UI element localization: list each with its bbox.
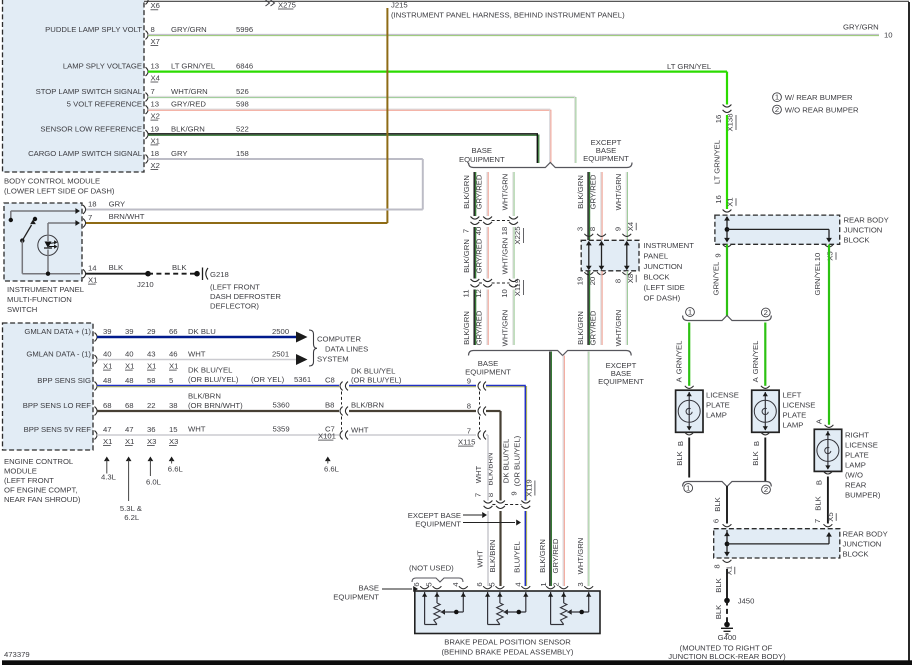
svg-text:GMLAN DATA - (1): GMLAN DATA - (1): [26, 350, 91, 359]
svg-text:6.6L: 6.6L: [324, 465, 340, 474]
svg-text:5 VOLT REFERENCE: 5 VOLT REFERENCE: [67, 100, 142, 109]
svg-text:B: B: [815, 480, 824, 485]
wire BLK/GRN to sensor pin 1: [538, 352, 551, 587]
svg-text:LICENSE: LICENSE: [783, 401, 816, 410]
svg-text:39: 39: [125, 327, 134, 336]
svg-text:X275: X275: [278, 0, 296, 9]
svg-text:A: A: [815, 418, 824, 424]
svg-text:BLK/BRN: BLK/BRN: [351, 401, 384, 410]
svg-text:BLK/GRN: BLK/GRN: [462, 175, 471, 209]
svg-text:LT GRN/YEL: LT GRN/YEL: [667, 62, 712, 71]
svg-text:BPP SENS 5V REF: BPP SENS 5V REF: [24, 425, 92, 434]
svg-text:WHT/GRN: WHT/GRN: [501, 174, 510, 211]
inline connector X225: [461, 217, 523, 245]
svg-text:BLK/GRN: BLK/GRN: [462, 239, 471, 273]
svg-text:5359: 5359: [273, 425, 290, 434]
svg-text:WHT/GRN: WHT/GRN: [576, 538, 585, 575]
svg-text:5.3L &: 5.3L &: [120, 504, 142, 513]
svg-text:BRAKE PEDAL POSITION SENSOR: BRAKE PEDAL POSITION SENSOR: [444, 638, 571, 647]
wire BLK below license plate lamp: [675, 432, 694, 477]
svg-text:BODY CONTROL MODULE: BODY CONTROL MODULE: [4, 177, 100, 186]
svg-text:68: 68: [125, 401, 134, 410]
split brace to license lamps 1 and 2: [683, 307, 772, 320]
svg-text:JUNCTION: JUNCTION: [843, 540, 882, 549]
junction block internal arrows: [584, 234, 631, 275]
wire DK BLU 2500 GMLAN+: [97, 327, 308, 343]
svg-text:3: 3: [575, 227, 584, 231]
wire GRY switch pin18 label: [109, 200, 126, 209]
svg-text:40: 40: [103, 350, 112, 359]
svg-text:BLK/GRN: BLK/GRN: [576, 175, 585, 209]
svg-text:GRY/GRN: GRY/GRN: [171, 25, 207, 34]
svg-text:GRN/YEL: GRN/YEL: [712, 261, 721, 295]
svg-text:COMPUTER: COMPUTER: [317, 335, 361, 344]
svg-text:REAR BODY: REAR BODY: [843, 530, 888, 539]
svg-text:BLK/GRN: BLK/GRN: [462, 311, 471, 345]
ECM BPP SENS SIG row: [37, 376, 173, 390]
license plate lamp E1: [676, 390, 739, 432]
svg-text:(OR BLU/YEL): (OR BLU/YEL): [351, 376, 402, 385]
svg-text:10: 10: [884, 31, 893, 40]
wire BLU/YEL to sensor pin 4: [513, 511, 527, 587]
svg-text:3: 3: [576, 582, 585, 586]
svg-text:43: 43: [147, 350, 156, 359]
svg-text:9: 9: [467, 377, 471, 386]
BCM top row connector X6: [146, 0, 160, 10]
svg-text:5361: 5361: [294, 375, 311, 384]
right license plate lamp connector A: [815, 418, 834, 427]
svg-text:DEFLECTOR): DEFLECTOR): [210, 302, 259, 311]
svg-text:5: 5: [425, 582, 434, 586]
svg-text:EQUIPMENT: EQUIPMENT: [415, 520, 461, 529]
svg-text:MODULE: MODULE: [4, 467, 37, 476]
BCM pin 19 BLK/GRN 522 sensor low row: [40, 125, 538, 146]
svg-text:INSTRUMENT: INSTRUMENT: [644, 241, 695, 250]
svg-text:EQUIPMENT: EQUIPMENT: [598, 377, 644, 386]
svg-text:29: 29: [147, 327, 156, 336]
svg-text:EQUIPMENT: EQUIPMENT: [465, 368, 511, 377]
svg-text:GRY/GRN: GRY/GRN: [843, 23, 879, 32]
svg-text:X1: X1: [125, 362, 134, 371]
svg-text:LAMP SPLY VOLTAGE: LAMP SPLY VOLTAGE: [63, 62, 142, 71]
svg-text:(NOT USED): (NOT USED): [409, 564, 454, 573]
svg-text:SENSOR LOW REFERENCE: SENSOR LOW REFERENCE: [40, 125, 142, 134]
wire GRY loop to switch pin 18: [85, 159, 423, 210]
svg-text:WHT: WHT: [351, 426, 369, 435]
engine control module box: [3, 323, 94, 504]
svg-text:BLK: BLK: [714, 604, 723, 619]
wire WHT after C7 to X115: [349, 392, 486, 447]
wire BRN/WHT vertical from J215: [386, 8, 388, 223]
BASE wires lower segment: [462, 290, 514, 347]
rear body junction block upper internal circuit: [723, 216, 834, 247]
svg-text:2501: 2501: [272, 350, 289, 359]
svg-text:46: 46: [169, 350, 178, 359]
svg-text:8: 8: [712, 564, 721, 568]
wire GRY/GRN right end label 10: [843, 23, 893, 40]
svg-text:7: 7: [473, 493, 482, 497]
svg-text:X4: X4: [151, 73, 161, 82]
svg-text:7: 7: [467, 427, 471, 436]
rear body junction block upper box: [715, 215, 889, 244]
svg-text:X1: X1: [103, 362, 112, 371]
svg-text:X1: X1: [169, 362, 178, 371]
merge brace to brake pedal sensor wires: [469, 351, 632, 356]
svg-text:BLK/BRN: BLK/BRN: [485, 453, 494, 486]
diagram number 473379: [4, 650, 30, 659]
svg-text:DK BLU/YEL: DK BLU/YEL: [351, 367, 396, 376]
svg-text:REAR BODY: REAR BODY: [844, 216, 889, 225]
wire BLK from switch pin 14 to splice J210: [86, 263, 154, 289]
svg-text:6846: 6846: [236, 62, 253, 71]
svg-text:BLOCK: BLOCK: [844, 236, 871, 245]
wire BLK/BRN down from X115: [485, 411, 500, 501]
rear body junction block lower box: [714, 529, 888, 559]
EXCEPT BASE EQUIPMENT label lower right: [598, 361, 644, 386]
svg-text:JUNCTION: JUNCTION: [644, 262, 683, 271]
svg-text:GRY: GRY: [109, 200, 126, 209]
svg-text:2: 2: [552, 582, 561, 586]
switch bottom rail to pin 14: [22, 272, 80, 276]
svg-text:X3: X3: [147, 437, 156, 446]
svg-text:EQUIPMENT: EQUIPMENT: [333, 593, 379, 602]
svg-text:158: 158: [236, 149, 249, 158]
inline connector X138: [714, 105, 736, 132]
svg-text:LT GRN/YEL: LT GRN/YEL: [712, 139, 721, 184]
svg-text:(LEFT SIDE: (LEFT SIDE: [644, 283, 685, 292]
svg-text:W/O REAR BUMPER: W/O REAR BUMPER: [785, 106, 859, 115]
svg-text:47: 47: [125, 425, 134, 434]
BASE wires middle segment: [462, 227, 514, 279]
svg-text:J450: J450: [738, 597, 755, 606]
wire BLK/BRN 5360 BPP LO REF to B8: [97, 392, 348, 416]
svg-text:18: 18: [151, 149, 160, 158]
svg-text:22: 22: [147, 401, 156, 410]
inline connector X119 left: [461, 279, 523, 298]
splice J215 label: [391, 0, 625, 19]
svg-text:2500: 2500: [272, 327, 289, 336]
svg-text:(OR BLU/YEL): (OR BLU/YEL): [513, 435, 522, 486]
BASE EQUIPMENT label at X115: [465, 359, 511, 377]
wire BRN/WHT from switch pin 7: [86, 212, 387, 223]
svg-text:PLATE: PLATE: [706, 401, 730, 410]
svg-text:47: 47: [103, 425, 112, 434]
svg-text:9: 9: [613, 227, 622, 231]
svg-text:1: 1: [686, 483, 690, 492]
engine variant callouts 5.3L 6.2L: [120, 457, 142, 523]
sensor pin connectors and not-used pins 6 5 4: [412, 582, 468, 589]
inline connector X119 lower: [484, 479, 535, 508]
svg-text:6.0L: 6.0L: [146, 478, 162, 487]
wire BLK from lamp merge to rear junction block: [711, 486, 731, 527]
svg-text:18: 18: [500, 227, 509, 236]
svg-text:6: 6: [711, 519, 720, 523]
wire WHT/GRN to sensor pin 3: [576, 352, 589, 587]
svg-text:X101: X101: [318, 432, 336, 441]
svg-text:C8: C8: [325, 376, 335, 385]
instrument panel junction block box: [581, 240, 694, 302]
svg-text:BLK/GRN: BLK/GRN: [538, 539, 547, 573]
svg-text:2: 2: [764, 485, 768, 494]
svg-text:GRY/RED: GRY/RED: [475, 238, 484, 273]
wire WHT/GRN vertical to split: [575, 97, 576, 163]
wire BLK splice to ground G218: [148, 263, 200, 277]
switch pin 14 connector X1: [83, 264, 97, 285]
svg-text:BLK/GRN: BLK/GRN: [576, 311, 585, 345]
wire BLK/GRN vertical to split: [537, 135, 538, 164]
svg-text:J210: J210: [137, 280, 154, 289]
svg-text:10: 10: [813, 253, 822, 262]
svg-text:NEAR FAN SHROUD): NEAR FAN SHROUD): [4, 495, 81, 504]
svg-text:ENGINE CONTROL: ENGINE CONTROL: [4, 457, 74, 466]
svg-text:BPP SENS SIG: BPP SENS SIG: [37, 376, 91, 385]
svg-text:5996: 5996: [236, 25, 253, 34]
svg-text:6.2L: 6.2L: [124, 513, 140, 522]
svg-text:2: 2: [764, 308, 768, 317]
svg-text:(OR YEL): (OR YEL): [251, 375, 285, 384]
svg-text:EQUIPMENT: EQUIPMENT: [583, 154, 629, 163]
svg-text:19: 19: [575, 277, 584, 286]
switch LED branch wire to pin 7: [48, 220, 80, 274]
svg-text:B: B: [676, 441, 685, 446]
svg-text:7: 7: [813, 519, 822, 523]
svg-text:JUNCTION BLOCK-REAR BODY): JUNCTION BLOCK-REAR BODY): [668, 652, 786, 661]
svg-text:GRY/RED: GRY/RED: [475, 174, 484, 209]
svg-text:BPP SENS LO REF: BPP SENS LO REF: [23, 401, 92, 410]
wire GRN/YEL to license plate lamp: [675, 323, 694, 389]
svg-text:15: 15: [169, 425, 178, 434]
svg-text:GRN/YEL: GRN/YEL: [751, 340, 760, 374]
svg-text:5360: 5360: [273, 401, 290, 410]
NOT USED label and brace: [409, 564, 463, 583]
svg-text:MULTI-FUNCTION: MULTI-FUNCTION: [7, 295, 72, 304]
BASE EQUIPMENT pointer arrow to not-used pin: [333, 584, 418, 602]
switch pin 7 connector: [83, 213, 92, 227]
switch internal top contact line: [9, 208, 80, 222]
svg-text:(W/O: (W/O: [845, 471, 863, 480]
svg-text:BLK/BRN: BLK/BRN: [188, 392, 221, 401]
merge brace from lamps 1 and 2: [683, 482, 772, 494]
svg-text:11: 11: [461, 290, 470, 298]
svg-text:X3: X3: [169, 437, 178, 446]
svg-text:X2: X2: [151, 112, 160, 121]
svg-text:BLK: BLK: [714, 577, 723, 592]
wire GRN/YEL to left license plate lamp: [751, 323, 770, 389]
svg-text:39: 39: [103, 327, 112, 336]
svg-text:X1: X1: [103, 437, 112, 446]
wire WHT 2501 GMLAN-: [97, 350, 308, 366]
svg-text:BLK: BLK: [814, 495, 823, 510]
svg-text:EQUIPMENT: EQUIPMENT: [459, 155, 505, 164]
wire GRY/RED vertical to split: [550, 110, 551, 163]
wire BLK below left license plate lamp: [751, 432, 770, 481]
svg-text:WHT/GRN: WHT/GRN: [501, 238, 510, 275]
svg-text:(LEFT FRONT: (LEFT FRONT: [4, 476, 54, 485]
svg-text:A: A: [751, 376, 760, 382]
rear body junction block lower internal circuit: [724, 530, 832, 557]
svg-text:X1: X1: [726, 197, 735, 206]
svg-text:PLATE: PLATE: [783, 411, 807, 420]
sensor potentiometer group at x 550.6: [546, 586, 593, 624]
svg-text:BLK: BLK: [713, 496, 722, 511]
svg-text:522: 522: [236, 125, 249, 134]
svg-text:LT GRN/YEL: LT GRN/YEL: [171, 62, 216, 71]
svg-text:GRY/RED: GRY/RED: [551, 538, 560, 573]
svg-text:LAMP: LAMP: [783, 421, 804, 430]
svg-text:PANEL: PANEL: [644, 252, 669, 261]
svg-text:BUMPER): BUMPER): [845, 491, 881, 500]
svg-text:BLK: BLK: [109, 263, 124, 272]
svg-text:B8: B8: [325, 401, 334, 410]
wire BLK splice J450 to ground G400: [714, 601, 730, 628]
wire BLK pin 8 X1 to splice J450: [712, 560, 754, 606]
BCM pin 18 GRY 158 cargo lamp row: [28, 149, 423, 170]
svg-text:9: 9: [509, 491, 518, 495]
svg-text:GRY/RED: GRY/RED: [589, 310, 598, 345]
svg-text:13: 13: [151, 100, 160, 109]
wire BLK below right license plate lamp: [813, 471, 836, 526]
svg-text:X1: X1: [88, 276, 97, 285]
svg-text:CARGO LAMP SWITCH SIGNAL: CARGO LAMP SWITCH SIGNAL: [28, 149, 143, 158]
svg-text:GMLAN DATA + (1): GMLAN DATA + (1): [24, 327, 91, 336]
svg-text:58: 58: [147, 376, 156, 385]
svg-text:(LOWER LEFT SIDE OF DASH): (LOWER LEFT SIDE OF DASH): [4, 187, 115, 196]
svg-text:STOP LAMP SWITCH SIGNAL: STOP LAMP SWITCH SIGNAL: [36, 87, 143, 96]
svg-text:16: 16: [714, 115, 723, 124]
wire DK BLU/YEL down from X115: [486, 386, 527, 501]
svg-text:SYSTEM: SYSTEM: [317, 355, 349, 364]
svg-text:8: 8: [467, 402, 471, 411]
svg-text:BLK: BLK: [172, 263, 187, 272]
svg-text:16: 16: [714, 195, 723, 204]
svg-text:4: 4: [514, 582, 523, 587]
svg-text:1: 1: [688, 307, 692, 316]
wire WHT 5359 BPP 5V REF to C7: [97, 392, 348, 441]
engine variant callouts 6.0L: [146, 457, 162, 487]
svg-text:BASE: BASE: [358, 584, 379, 593]
split to BASE and EXCEPT BASE equipment: [459, 138, 632, 167]
svg-text:8: 8: [588, 227, 597, 231]
svg-text:5: 5: [169, 376, 173, 385]
ground G218: [203, 268, 282, 311]
svg-text:10: 10: [500, 289, 509, 298]
svg-text:473379: 473379: [4, 650, 30, 659]
svg-text:B: B: [752, 441, 761, 446]
BCM pin 8 GRY/GRN 5996 puddle lamp row: [45, 25, 879, 46]
svg-text:BRN/WHT: BRN/WHT: [109, 212, 145, 221]
svg-text:PUDDLE LAMP SPLY VOLT: PUDDLE LAMP SPLY VOLT: [45, 25, 142, 34]
svg-text:WHT: WHT: [188, 350, 206, 359]
svg-text:RIGHT: RIGHT: [845, 431, 869, 440]
svg-text:A: A: [675, 376, 684, 382]
svg-text:13: 13: [151, 62, 160, 71]
svg-text:OF ENGINE COMPT,: OF ENGINE COMPT,: [4, 486, 77, 495]
svg-text:(INSTRUMENT PANEL HARNESS, BEH: (INSTRUMENT PANEL HARNESS, BEHIND INSTRU…: [391, 10, 625, 19]
svg-text:6: 6: [412, 582, 421, 586]
BASE equipment wires BLK/GRN GRY/RED WHT/GRN upper segment: [462, 172, 514, 216]
svg-text:DK BLU/YEL: DK BLU/YEL: [502, 438, 511, 483]
ECM BPP SENS LO REF row: [23, 401, 178, 415]
svg-text:BASE: BASE: [472, 146, 493, 155]
switch arm: [20, 217, 37, 274]
svg-text:38: 38: [169, 401, 178, 410]
svg-text:68: 68: [103, 401, 112, 410]
svg-text:DASH DEFROSTER: DASH DEFROSTER: [210, 292, 281, 301]
svg-text:WHT: WHT: [188, 425, 206, 434]
svg-text:66: 66: [169, 327, 178, 336]
svg-text:OF DASH): OF DASH): [644, 294, 681, 303]
brake pedal position sensor box: [415, 591, 600, 657]
svg-text:X7: X7: [151, 37, 160, 46]
ECM GMLAN DATA - row: [26, 350, 178, 371]
svg-text:9: 9: [714, 253, 723, 257]
svg-text:X4: X4: [626, 221, 635, 231]
ECM GMLAN DATA + row: [24, 327, 177, 341]
svg-text:(LEFT FRONT: (LEFT FRONT: [210, 283, 260, 292]
svg-text:WHT/GRN: WHT/GRN: [614, 174, 623, 211]
svg-text:4.3L: 4.3L: [101, 473, 117, 482]
svg-text:WHT/GRN: WHT/GRN: [501, 310, 510, 347]
switch LED lamp: [38, 235, 58, 255]
svg-text:BLOCK: BLOCK: [843, 550, 870, 559]
svg-text:BLOCK: BLOCK: [644, 273, 671, 282]
svg-text:X1: X1: [125, 437, 134, 446]
svg-text:GRY/RED: GRY/RED: [171, 100, 206, 109]
svg-text:WHT/GRN: WHT/GRN: [614, 310, 623, 347]
svg-text:6: 6: [475, 582, 484, 586]
svg-text:G218: G218: [210, 270, 229, 279]
EXCEPT BASE EQUIPMENT pointer arrows: [408, 511, 521, 529]
svg-text:8: 8: [613, 279, 622, 283]
engine variant callouts 6.6L: [168, 457, 184, 474]
wire WHT down from X115: [473, 435, 488, 501]
inline connector X275 on top wire: [266, 0, 296, 9]
svg-text:BLK: BLK: [751, 450, 760, 465]
svg-text:GRY: GRY: [171, 149, 188, 158]
svg-text:LEFT: LEFT: [783, 391, 802, 400]
wire LT GRN/YEL to rear body junction block: [712, 115, 736, 212]
sensor potentiometer group at x 424.6: [422, 592, 466, 625]
svg-text:DATA LINES: DATA LINES: [325, 345, 368, 354]
ground G400: [668, 628, 786, 661]
X101 variant callout 6.6L: [324, 457, 340, 474]
svg-text:G400: G400: [718, 633, 737, 642]
wire DK BLU/YEL 5361 BPP SENS SIG to C8: [97, 366, 348, 391]
svg-text:19: 19: [151, 125, 160, 134]
svg-text:X1: X1: [151, 136, 160, 145]
svg-text:BLK/GRN: BLK/GRN: [171, 125, 205, 134]
engine variant callouts 4.3L: [101, 457, 117, 482]
svg-text:WHT/GRN: WHT/GRN: [171, 87, 208, 96]
sensor potentiometer group at x 487.6: [483, 586, 530, 624]
svg-text:1: 1: [775, 93, 779, 102]
legend W/ and W/O rear bumper: [773, 93, 859, 115]
svg-text:GRY/RED: GRY/RED: [589, 174, 598, 209]
svg-text:18: 18: [88, 200, 97, 209]
wire GRN/YEL pin 10 X5 down to right lamp: [813, 245, 836, 425]
svg-text:14: 14: [88, 264, 97, 273]
wire BLK/BRN to sensor pin 5: [488, 511, 501, 587]
svg-text:526: 526: [236, 87, 249, 96]
computer data lines system brace: [309, 330, 368, 366]
wire WHT to sensor pin 6: [475, 511, 488, 587]
body control module U1 (BCM) box: [3, 0, 145, 196]
wire BLK/BRN after B8 to X115: [349, 401, 486, 416]
svg-text:5: 5: [488, 582, 497, 586]
wire GRY/RED to sensor pin 2: [551, 356, 564, 587]
svg-text:PLATE: PLATE: [845, 451, 869, 460]
EXCEPT BASE wires below junction block: [575, 271, 636, 346]
